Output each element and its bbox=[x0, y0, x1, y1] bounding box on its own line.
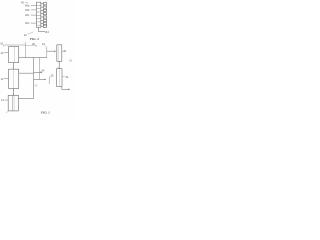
connector box10 -> box12 bbox=[12, 63, 14, 69]
label 10 arrow bbox=[4, 52, 8, 54]
svg-text:14: 14 bbox=[1, 98, 4, 102]
svg-text:18: 18 bbox=[69, 59, 72, 63]
svg-text:FIG. 2: FIG. 2 bbox=[30, 37, 40, 41]
svg-text:30: 30 bbox=[63, 49, 66, 53]
wire V2 down bbox=[25, 42, 27, 57]
vertical V4 bbox=[39, 58, 41, 80]
vertical junction bbox=[46, 47, 48, 57]
svg-text:40n: 40n bbox=[25, 21, 30, 25]
label 12 arrow bbox=[4, 78, 8, 80]
label 24 tick bbox=[40, 71, 42, 73]
svg-text:40c: 40c bbox=[25, 13, 30, 17]
svg-text:40: 40 bbox=[21, 0, 24, 4]
svg-text:12: 12 bbox=[1, 77, 4, 81]
svg-text:26: 26 bbox=[51, 73, 54, 77]
svg-text:24: 24 bbox=[42, 68, 45, 72]
box 14 bbox=[8, 95, 18, 111]
branch H3 with arrow bbox=[34, 78, 45, 80]
wire W1 from box10 to right bbox=[19, 57, 47, 59]
FIG.2 tiny number labels bbox=[21, 0, 49, 37]
label 14 arrow bbox=[5, 99, 8, 101]
FIG.1 tiny number labels bbox=[0, 42, 72, 103]
42 leader line bbox=[28, 32, 34, 35]
branch H2 with arrow bbox=[34, 71, 41, 73]
cell divider lines bbox=[37, 5, 41, 25]
left label arrows bbox=[31, 5, 37, 23]
right rect 30 bbox=[57, 45, 62, 62]
right-hand small boxes column bbox=[41, 3, 47, 28]
svg-text:10: 10 bbox=[0, 51, 3, 55]
bottom wire of rect32 bbox=[62, 87, 69, 90]
svg-text:42: 42 bbox=[24, 33, 27, 37]
label 22 tick bbox=[45, 45, 47, 47]
svg-text:40b: 40b bbox=[25, 8, 30, 12]
small tick bottom-left of box14 bbox=[6, 111, 8, 113]
label 30 tick bbox=[62, 50, 64, 52]
svg-text:34: 34 bbox=[65, 75, 68, 79]
right rect 32 bbox=[57, 69, 62, 87]
label 20 tick bbox=[35, 45, 37, 47]
box 12 bbox=[9, 69, 19, 88]
connector box12 -> box14 bbox=[12, 89, 14, 95]
svg-text:FIG. 1: FIG. 1 bbox=[41, 111, 50, 115]
svg-text:16: 16 bbox=[0, 42, 3, 46]
40 pointer tick bbox=[25, 2, 29, 3]
bottom L wire of FIG.2 bbox=[39, 27, 46, 32]
wire from box14 right bbox=[18, 98, 33, 100]
svg-text:44: 44 bbox=[46, 30, 49, 34]
vertical V1 bbox=[33, 57, 35, 98]
branch wire box12 right bbox=[19, 72, 34, 74]
box 10 bbox=[9, 47, 19, 63]
svg-text:28: 28 bbox=[34, 84, 37, 88]
small vertical bar bbox=[48, 77, 50, 84]
top feedback wire bbox=[4, 45, 26, 47]
wire into rect30 bbox=[47, 50, 54, 52]
svg-text:40a: 40a bbox=[25, 4, 30, 8]
connector rect30 -> rect32 bbox=[58, 61, 60, 68]
label 26 tick bbox=[49, 76, 50, 77]
register stack block 40 bbox=[37, 2, 41, 27]
label 34 tick bbox=[62, 76, 65, 78]
